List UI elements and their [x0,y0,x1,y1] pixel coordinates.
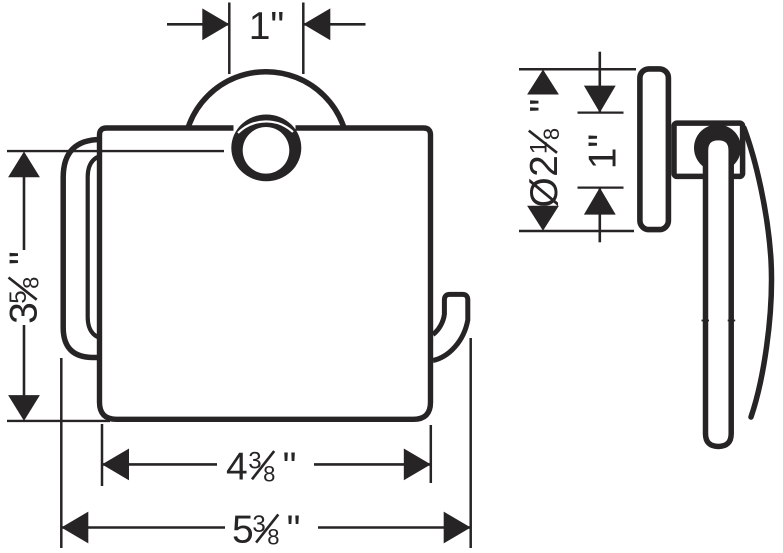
svg-text:8: 8 [263,461,275,486]
svg-text:3: 3 [3,302,46,324]
svg-text:": " [523,99,566,113]
svg-text:1": 1" [582,134,625,170]
svg-text:": " [283,445,297,488]
svg-text:2: 2 [523,155,566,177]
svg-text:": " [287,509,301,552]
svg-text:8: 8 [539,128,564,140]
svg-text:4: 4 [226,445,248,488]
svg-text:": " [3,251,46,265]
svg-text:1": 1" [249,5,285,48]
svg-text:8: 8 [267,525,279,550]
svg-text:5: 5 [232,509,254,552]
svg-text:Ø: Ø [523,177,566,207]
